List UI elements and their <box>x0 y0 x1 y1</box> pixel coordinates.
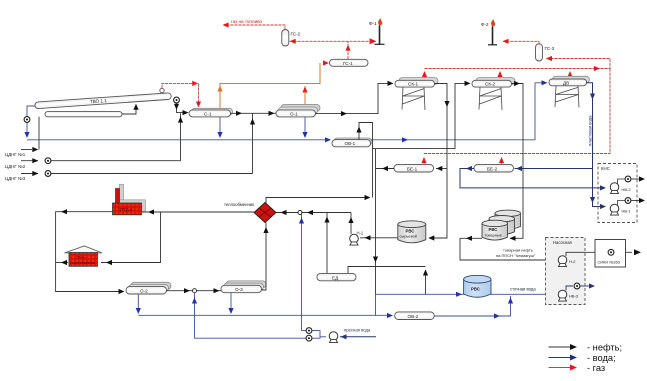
svg-text:- газ: - газ <box>587 363 605 373</box>
wire: C-1 gas riser lower part <box>219 91 221 110</box>
svg-text:Ф-1: Ф-1 <box>369 21 377 26</box>
furnace pech podogrevatel <box>65 246 103 266</box>
wire: O-3 drain <box>230 293 232 313</box>
box nasosnaya <box>546 238 586 305</box>
svg-text:сточная вода: сточная вода <box>510 287 536 292</box>
wire: fresh water inlet <box>340 336 376 338</box>
wire: CDNG1 riser to TVO stage 2 <box>38 117 40 150</box>
svg-text:- нефть;: - нефть; <box>587 343 622 353</box>
wire: link down <box>375 294 377 316</box>
vessel C-1 <box>189 108 233 117</box>
svg-text:Н-1: Н-1 <box>357 231 364 236</box>
vessel BE-1 <box>394 164 434 172</box>
svg-text:БЕ-2: БЕ-2 <box>487 166 498 171</box>
svg-text:Ф-2: Ф-2 <box>481 22 489 27</box>
wire: O-2 to O-3 <box>167 290 222 292</box>
wire: TVO second stage to main vessel <box>122 105 136 115</box>
vessel BE-2 <box>474 164 514 172</box>
wire: CDNG3 riser into C-1/O-1 pipe <box>252 114 254 174</box>
wire: SK-1 branch to BE-1 <box>436 168 447 170</box>
svg-text:КНС: КНС <box>601 166 610 171</box>
wire: N-2 to SIKN and out <box>566 252 632 256</box>
node CDNG N3 <box>5 114 255 182</box>
svg-text:СК-1: СК-1 <box>408 82 419 87</box>
furnace PTB-4 <box>113 184 146 215</box>
vessel SK-2 with supports <box>472 78 515 110</box>
arrow up from O-1 riser <box>302 87 307 93</box>
arrow gas to fuel <box>223 22 229 27</box>
tank RVS tovarny (three) <box>482 210 521 240</box>
svg-text:- вода;: - вода; <box>587 353 616 363</box>
svg-text:СК-2: СК-2 <box>485 82 496 87</box>
meter lower <box>306 335 312 341</box>
svg-text:пресная вода: пресная вода <box>344 328 371 333</box>
gas riser SK-2 <box>499 74 501 81</box>
wire: red gas header <box>424 59 611 154</box>
svg-text:подогреватель: подогреватель <box>71 261 96 265</box>
vessel GS-2 <box>282 30 301 47</box>
svg-text:на ППСН "Чекмагуш": на ППСН "Чекмагуш" <box>496 253 536 258</box>
vessel O-1 <box>276 104 320 117</box>
svg-text:РВС: РВС <box>471 287 480 292</box>
arrow right into flare F-1 <box>370 38 377 44</box>
vessel GS-3 <box>536 44 555 61</box>
node CDNG N2 <box>5 113 183 169</box>
node CDNG N1 <box>5 117 39 157</box>
red riser BE-2 <box>501 160 503 164</box>
wire: OV-1 water to DV <box>371 83 547 140</box>
arrow left into GS-2 <box>290 39 296 44</box>
wire: C-1 to O-1 <box>231 112 277 114</box>
wire: to SK-2 riser <box>373 83 469 148</box>
wire: CDNG2 riser into C-1 feed <box>180 113 182 161</box>
svg-text:пластовая вода: пластовая вода <box>588 115 593 146</box>
wire: SK-1 outlet down to RVS syr <box>429 84 447 239</box>
wire: diamond top header to right <box>266 198 368 204</box>
vessel OV-2 <box>395 312 435 320</box>
wire: to ED vessel <box>348 267 376 274</box>
wire: drains water header to OV-2 <box>138 314 391 316</box>
svg-text:НВ-3: НВ-3 <box>569 294 579 299</box>
tank RVS blue (stochnaya) <box>464 275 491 297</box>
wire: branch to BE-2 <box>515 168 593 170</box>
svg-text:ДВ: ДВ <box>563 80 569 85</box>
wire: O-3 outlet up to heat exchanger <box>262 223 267 291</box>
svg-text:Насосная: Насосная <box>553 240 572 245</box>
wire: GS-3 to flare F-2 <box>503 41 539 44</box>
wire: BE-2 left outlet to KNS pump NV-2 <box>460 169 604 188</box>
svg-text:О-1: О-1 <box>290 111 298 116</box>
pump N-1 <box>350 231 364 246</box>
wire: BE-1 left outlet <box>376 168 395 170</box>
svg-text:газ на топливо: газ на топливо <box>231 19 263 24</box>
wire: O-1 outlet to SK-1 riser <box>316 83 393 113</box>
svg-text:НВ-1: НВ-1 <box>622 209 632 214</box>
pump NV-3 <box>558 283 595 301</box>
wire: gas from TVO to C-1 (red) <box>162 83 199 104</box>
wire: O-1 gas riser <box>304 91 306 110</box>
wire: C-1 water drain <box>219 117 221 137</box>
svg-text:ЦДНГ №3: ЦДНГ №3 <box>5 176 26 181</box>
wire: produced water header to OV-1 <box>27 139 330 141</box>
wire: distribution lines <box>195 331 321 339</box>
vessel OV-1 <box>332 138 372 147</box>
pump NV-2 <box>610 176 645 193</box>
svg-text:РВС: РВС <box>489 227 498 232</box>
wire: OV-1 overhead loop <box>359 123 373 198</box>
wire: branch down to pech <box>101 212 161 263</box>
pump N-2 <box>558 256 576 267</box>
svg-text:ПТБ-4: ПТБ-4 <box>120 207 133 212</box>
svg-text:ГС-3: ГС-3 <box>545 46 555 51</box>
svg-text:ЦДНГ №2: ЦДНГ №2 <box>5 164 26 169</box>
arrow down to water header <box>24 132 29 138</box>
wire: gas to fuel line from GS-2 <box>224 25 285 30</box>
wire: riser from OV-2 area to ED line <box>425 270 427 294</box>
arrow up to flare line <box>345 45 350 51</box>
svg-text:ГС-2: ГС-2 <box>291 32 301 37</box>
svg-text:С-1: С-1 <box>204 111 212 116</box>
svg-text:товарные: товарные <box>485 232 502 237</box>
wire: diamond to PTB furnace <box>142 211 254 213</box>
wire: O-2 drain <box>137 294 139 313</box>
vessel SK-1 with supports <box>395 78 438 110</box>
svg-text:ГС-1: ГС-1 <box>343 61 353 66</box>
pump N-3 fresh water <box>329 332 338 343</box>
meter on TVO left drop <box>24 117 30 123</box>
wire: N-1 riser <box>350 213 352 235</box>
svg-text:О-3: О-3 <box>235 287 243 292</box>
flare F-2 <box>481 20 497 45</box>
svg-text:ОВ-2: ОВ-2 <box>408 314 419 319</box>
red riser BE-1 <box>423 160 425 164</box>
svg-text:ЦДНГ №1: ЦДНГ №1 <box>5 152 26 157</box>
wire: ED riser <box>326 213 328 274</box>
wire: RVS tov outlet to nasosnaya <box>460 238 556 260</box>
meter upper <box>306 328 312 334</box>
svg-text:Печь-: Печь- <box>77 256 87 260</box>
svg-text:СИКН №353: СИКН №353 <box>598 260 620 265</box>
wire: OV-2 outlet up to stochnaya line <box>434 296 510 316</box>
svg-text:товарная нефть: товарная нефть <box>503 248 533 253</box>
vessel TVO second stage <box>45 112 122 117</box>
svg-text:НВ-2: НВ-2 <box>622 187 632 192</box>
box KNS <box>598 164 637 223</box>
svg-text:ЕД: ЕД <box>332 275 339 280</box>
svg-text:О-2: О-2 <box>140 289 148 294</box>
pump NV-1 <box>610 198 645 215</box>
vessel DV with supports <box>549 76 590 107</box>
wire: stochnaya voda header <box>376 293 549 295</box>
wire: diamond right side line <box>276 212 352 214</box>
wire: GS-1 to flare line <box>290 41 376 59</box>
node: junction circle O-2/O-3 <box>193 289 197 293</box>
wire: RVS syr to N-1 <box>360 237 398 239</box>
vessel O-2 <box>126 282 171 294</box>
wire: TVO right outlet to C-1 <box>177 104 188 113</box>
nozzle on TVO <box>160 88 164 92</box>
wire: O-1 water drain <box>304 117 306 137</box>
wire: gas header C-1/O-1 to GS-1 (orange) <box>220 63 320 91</box>
svg-text:ОВ-1: ОВ-1 <box>345 141 356 146</box>
wire: PTB outlet left, down to O-2 <box>56 212 122 292</box>
vessel TVO 1.1 (slanted) <box>35 93 172 109</box>
wire: fresh water riser to O-2/O-3 node <box>194 293 196 339</box>
wire: pech outlet left <box>56 262 68 264</box>
heat exchanger diamond <box>224 202 276 223</box>
svg-text:сырьевой: сырьевой <box>400 234 417 239</box>
vessel GS-1 <box>330 59 369 66</box>
wire: long vertical to OV-2 line <box>375 149 377 295</box>
vessel O-3 <box>221 281 266 293</box>
arrow gas right into corner <box>192 81 198 86</box>
gas riser DV <box>569 74 571 79</box>
vessel ED <box>317 273 356 280</box>
gas riser SK-1 <box>424 74 426 81</box>
arrow into GS-1 <box>323 60 329 65</box>
svg-text:Н-2: Н-2 <box>569 259 576 264</box>
svg-text:БЕ-1: БЕ-1 <box>407 166 418 171</box>
svg-text:теплообменник: теплообменник <box>224 202 254 207</box>
box SIKN <box>595 240 626 268</box>
wire: SK-2 outlet down to RVS tov <box>510 84 523 239</box>
arrow gas down into C-1 <box>196 102 201 108</box>
tank RVS syrevoy <box>398 221 426 243</box>
wire: DV water out (plastovaya voda) <box>587 83 605 207</box>
flare F-1 <box>369 19 385 45</box>
wire: fresh water riser to diamond node <box>301 213 303 331</box>
wire: TVO left outlet down (water) <box>27 106 35 117</box>
node: junction circle <box>298 211 302 215</box>
arrow up from C-1 riser <box>217 86 222 92</box>
